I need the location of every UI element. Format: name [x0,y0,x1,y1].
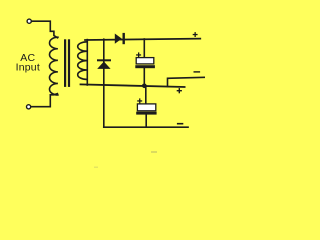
svg-text:Input: Input [16,62,40,74]
